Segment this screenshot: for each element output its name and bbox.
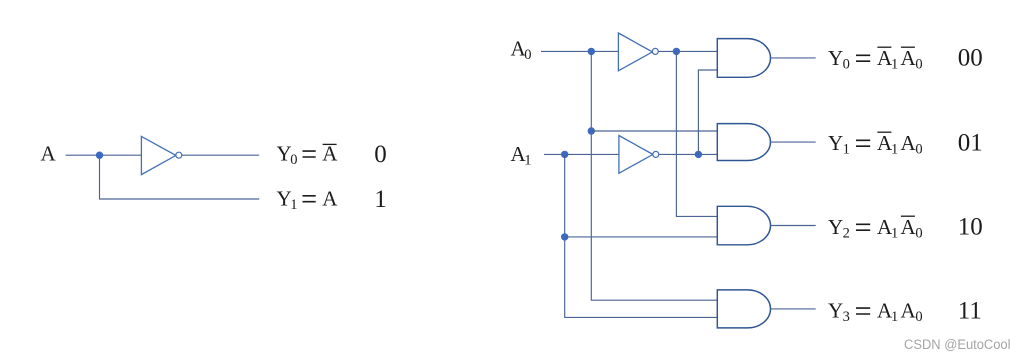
wire: U5 output bbox=[771, 141, 816, 143]
svg-text:1: 1 bbox=[891, 141, 898, 157]
svg-text:3: 3 bbox=[843, 309, 850, 325]
junction J2: A0-bar branch bbox=[673, 48, 680, 55]
junction: node A branch bbox=[96, 152, 103, 159]
svg-text:10: 10 bbox=[958, 214, 983, 241]
input label A1 bbox=[511, 142, 532, 169]
label Y1 = A bbox=[277, 186, 339, 213]
svg-text:11: 11 bbox=[958, 298, 982, 325]
wire: A0 branch to gate U5 top input bbox=[591, 130, 717, 132]
AND gate U6 (Y2) bbox=[717, 206, 770, 245]
wire: input A1 to inverter U3 bbox=[544, 153, 619, 155]
wire: input A0 to inverter U2 bbox=[541, 50, 618, 52]
wire: A1 vertical branch down to gate U7 bottom input bbox=[565, 154, 718, 317]
AND gate U7 (Y3) bbox=[717, 290, 770, 328]
AND gate U4 (Y0) bbox=[717, 39, 770, 78]
wire: A0-bar vertical branch to gate U6 top input bbox=[676, 51, 717, 216]
junction J5: A1-bar branch bbox=[695, 151, 702, 158]
svg-text:Y: Y bbox=[828, 131, 843, 155]
wire: input A to inverter U1 bbox=[66, 154, 142, 156]
svg-text:01: 01 bbox=[958, 130, 983, 157]
wire: U3 output A1-bar to gate U5 bottom input bbox=[659, 153, 718, 155]
svg-text:Y: Y bbox=[828, 299, 843, 323]
svg-text:00: 00 bbox=[958, 45, 983, 72]
label Y2 = A1 A0-bar bbox=[828, 215, 923, 242]
inverter U1 bubble bbox=[176, 152, 182, 158]
svg-text:CSDN @EutoCool: CSDN @EutoCool bbox=[904, 337, 1011, 353]
svg-text:A: A bbox=[901, 299, 917, 323]
inverter U3 bubble bbox=[653, 151, 659, 157]
wire: A0 vertical branch down to gate U7 input bbox=[591, 51, 717, 300]
svg-text:2: 2 bbox=[843, 225, 850, 241]
svg-text:Y: Y bbox=[828, 46, 843, 70]
label Y1 = A1-bar A0 bbox=[828, 131, 923, 158]
svg-text:0: 0 bbox=[374, 141, 387, 168]
wire: node A branch down to Y1 row bbox=[100, 155, 260, 199]
label Y3 = A1 A0 bbox=[828, 299, 923, 326]
svg-text:Y: Y bbox=[828, 215, 843, 239]
svg-text:0: 0 bbox=[915, 225, 922, 241]
wire: U2 output A0-bar to gate U4 top input bbox=[658, 50, 717, 52]
AND gate U5 (Y1) bbox=[717, 124, 770, 161]
junction J4: A1 branch bbox=[561, 151, 568, 158]
label Y0 = A1-bar A0-bar bbox=[828, 46, 923, 73]
svg-text:A: A bbox=[322, 186, 338, 210]
inverter U1 triangle bbox=[141, 136, 176, 174]
inverter U3 triangle bbox=[619, 136, 653, 174]
wire: U1 output to Y0 label bbox=[182, 154, 260, 156]
svg-text:A: A bbox=[901, 215, 917, 239]
svg-text:0: 0 bbox=[843, 56, 850, 72]
svg-text:1: 1 bbox=[891, 309, 898, 325]
wire: A1 branch to gate U6 bottom input bbox=[565, 236, 718, 238]
label Y0 = A-bar bbox=[277, 142, 339, 169]
svg-text:1: 1 bbox=[843, 141, 850, 157]
svg-text:1: 1 bbox=[891, 56, 898, 72]
svg-text:A: A bbox=[901, 46, 917, 70]
svg-text:A: A bbox=[41, 142, 57, 166]
wire: U4 output bbox=[771, 57, 816, 59]
svg-text:1: 1 bbox=[290, 197, 297, 213]
wire: U6 output bbox=[771, 225, 816, 227]
svg-text:1: 1 bbox=[524, 153, 531, 169]
inverter U2 triangle bbox=[618, 33, 652, 71]
wire: A1-bar vertical branch up to gate U4 bottom input bbox=[698, 70, 717, 154]
input label A0 bbox=[511, 36, 532, 63]
junction J3: A0 branch to gate U5 bbox=[588, 127, 595, 134]
svg-text:1: 1 bbox=[374, 186, 387, 213]
svg-text:0: 0 bbox=[524, 47, 531, 63]
wire: U7 output bbox=[771, 308, 816, 310]
svg-text:A: A bbox=[322, 142, 338, 166]
svg-text:0: 0 bbox=[915, 309, 922, 325]
junction J6: A1 branch to gate U6 bbox=[561, 233, 568, 240]
svg-text:0: 0 bbox=[915, 141, 922, 157]
svg-text:0: 0 bbox=[915, 56, 922, 72]
svg-text:1: 1 bbox=[891, 225, 898, 241]
inverter U2 bubble bbox=[652, 48, 658, 54]
svg-text:0: 0 bbox=[290, 152, 297, 168]
svg-text:A: A bbox=[901, 131, 917, 155]
junction J1: A0 branch bbox=[588, 48, 595, 55]
